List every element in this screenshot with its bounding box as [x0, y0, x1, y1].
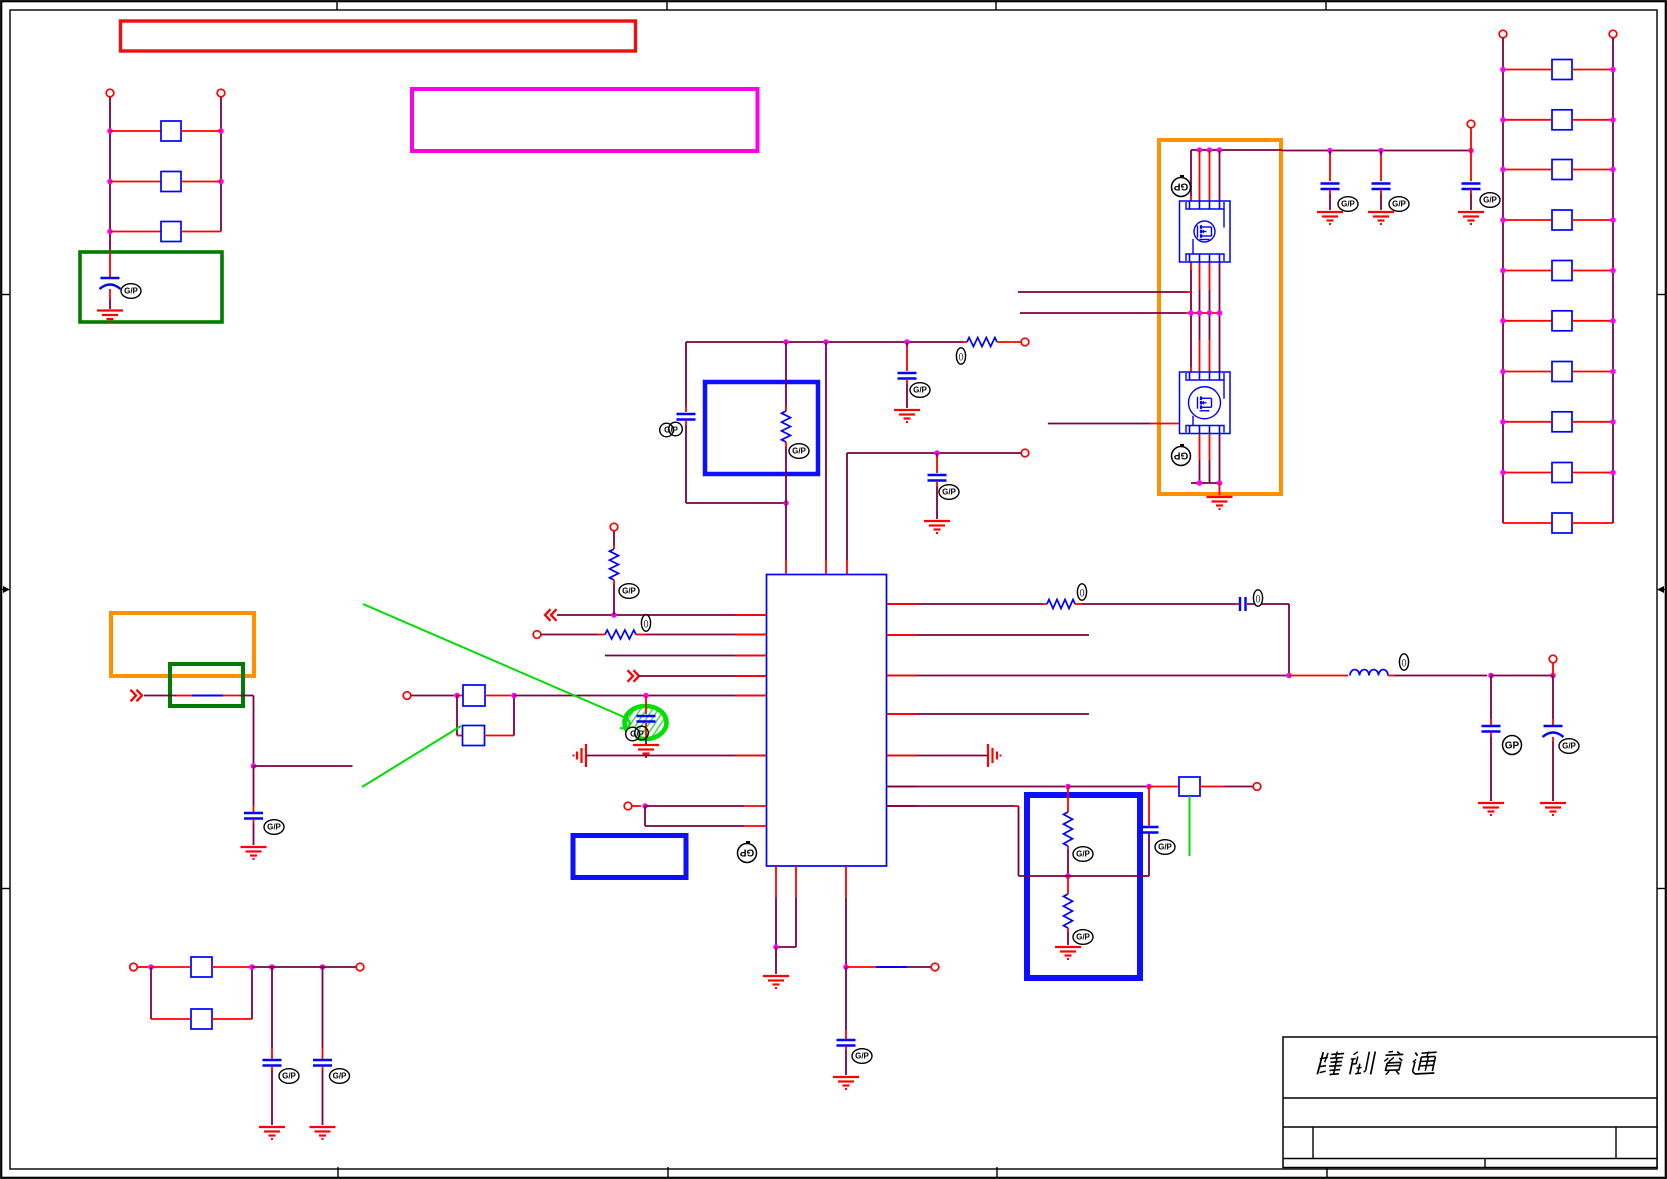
wire power bus top: [1191, 149, 1282, 151]
resistor R11 (loop): [457, 696, 514, 746]
wire L3: [605, 655, 766, 657]
wire net A stub right: [254, 765, 353, 767]
svg-text:GP: GP: [1173, 181, 1188, 192]
capacitor C3: [263, 967, 300, 1125]
svg-text:G/P: G/P: [664, 426, 678, 435]
wire to P13: [846, 966, 931, 968]
node ladder L8: [1500, 419, 1506, 425]
resistor RL7: [1503, 362, 1613, 382]
node ladder L7: [1500, 369, 1506, 375]
node ladder R9: [1610, 470, 1616, 476]
node net A: [251, 763, 257, 769]
wire top bus: [686, 341, 963, 343]
capacitor C7: [928, 453, 960, 519]
svg-text:G/P: G/P: [1392, 200, 1406, 209]
resistor RL10: [1503, 513, 1613, 533]
node ladder R2: [1610, 117, 1616, 123]
wire L5: [514, 695, 766, 697]
wire bus left drop: [685, 342, 687, 412]
svg-text:G/P: G/P: [1483, 196, 1497, 205]
ground (C10): [1478, 803, 1504, 815]
node ladder L4: [1500, 217, 1506, 223]
node right rail row1: [218, 128, 224, 134]
resistor R1: [110, 121, 221, 141]
resistor R2: [110, 172, 221, 192]
node mid 1209: [1207, 310, 1213, 316]
output chevron net C: [628, 670, 640, 682]
highlight box magenta: [412, 89, 758, 151]
wire R3: [887, 675, 1289, 677]
svg-text:G/P: G/P: [1076, 850, 1090, 859]
wire L8: [645, 806, 766, 826]
ground (C13): [833, 1077, 859, 1089]
IC U1: [767, 575, 887, 867]
resistor RL3: [1503, 160, 1613, 180]
resistor R4: [151, 957, 252, 977]
resistor RL5: [1503, 261, 1613, 281]
terminal P16: [1467, 120, 1475, 150]
svg-text:GP: GP: [1173, 450, 1188, 461]
capacitor C5: [660, 414, 696, 437]
leader line green 1: [363, 604, 630, 728]
resistor RL6: [1503, 311, 1613, 331]
wire R7net: [887, 806, 1149, 876]
ground (R14): [1055, 947, 1081, 959]
ground (C3): [259, 1127, 285, 1139]
wire L1: [557, 614, 766, 616]
capacitor C14: [1321, 151, 1359, 212]
ground (rotated, L6): [574, 744, 587, 767]
svg-text:G/P: G/P: [1076, 933, 1090, 942]
node ladder R7: [1610, 369, 1616, 375]
wire L4: [639, 675, 766, 677]
ground (C15): [1368, 212, 1394, 224]
ground (C14): [1317, 212, 1343, 224]
capacitor C11 (polarized): [1543, 676, 1580, 802]
capacitor C13: [837, 967, 873, 1075]
transistor Q1: [1180, 201, 1231, 262]
terminal P5: [1021, 338, 1029, 346]
node bus at 826: [823, 339, 829, 345]
node 1068/876: [1065, 873, 1071, 879]
wire ladder right rail: [1612, 38, 1614, 523]
terminal P17: [1499, 30, 1507, 38]
resistor R5 (loop): [151, 967, 252, 1029]
svg-text:GP: GP: [739, 847, 754, 858]
wire IC pin T2: [825, 342, 827, 574]
ground (B1): [763, 947, 789, 988]
svg-text:G/P: G/P: [1562, 742, 1576, 751]
resistor R10: [457, 685, 511, 706]
terminal P13: [931, 963, 939, 971]
terminal P18: [1609, 30, 1617, 38]
highlight box blue (divider): [1027, 795, 1140, 978]
resistor R12: [887, 584, 1236, 609]
wire gate2 in: [1048, 423, 1179, 425]
wire ladder left rail: [1502, 38, 1504, 523]
wire R5: [887, 755, 988, 757]
resistor RL9: [1503, 463, 1613, 483]
capacitor C2: [244, 766, 284, 845]
node BL4: [320, 964, 326, 970]
node ladder L3: [1500, 167, 1506, 173]
node ladder R4: [1610, 217, 1616, 223]
svg-text:G/P: G/P: [333, 1072, 347, 1081]
capacitor C10: [1482, 676, 1522, 802]
wire col1: [1190, 150, 1192, 372]
ground (C11): [1540, 803, 1566, 815]
node BL2: [249, 964, 255, 970]
wire R6net: [887, 786, 1065, 788]
node BL1: [148, 964, 154, 970]
node ladder R6: [1610, 318, 1616, 324]
svg-text:(): (): [643, 619, 649, 628]
wire col4: [1219, 150, 1221, 483]
wire col2: [1199, 150, 1201, 483]
wire right rail: [220, 131, 222, 232]
svg-text:G/P: G/P: [942, 488, 956, 497]
svg-text:G/P: G/P: [267, 823, 281, 832]
ground (rotated, R5): [988, 744, 1001, 767]
node bot 1199: [1197, 480, 1203, 486]
terminal P6: [1021, 449, 1029, 457]
node 1068/786: [1065, 784, 1071, 790]
output chevron net A: [131, 690, 143, 702]
wire R1 drop: [1288, 604, 1290, 676]
ground (C7): [924, 521, 950, 533]
node ladder L2: [1500, 117, 1506, 123]
highlight box green (left): [170, 664, 243, 706]
terminal P12: [1253, 783, 1261, 791]
wire vout bus: [1282, 150, 1471, 152]
ground (C8): [633, 745, 659, 757]
wire IC pin T1: [785, 503, 787, 574]
node BL3: [269, 964, 275, 970]
capacitor C1 (polarized): [100, 252, 142, 309]
resistor R7: [782, 342, 810, 503]
node ladder R8: [1610, 419, 1616, 425]
highlight box blue (R7): [705, 382, 818, 474]
svg-text:G/P: G/P: [622, 587, 636, 596]
wire mid net: [1020, 312, 1221, 314]
node ladder R1: [1610, 67, 1616, 73]
terminal P3: [130, 963, 148, 971]
node bot 1219: [1217, 480, 1223, 486]
wire IC pin T3: [846, 453, 848, 574]
node 1553/675: [1550, 673, 1556, 679]
wire bottom join: [1191, 482, 1220, 484]
resistor RL2: [1503, 110, 1613, 130]
wire green stub: [1189, 796, 1191, 856]
jumper J1: [1149, 777, 1253, 796]
node 1471/150: [1468, 148, 1474, 154]
resistor RL1: [1503, 60, 1613, 80]
resistor R14: [1064, 876, 1094, 945]
highlight ellipse green: [600, 692, 718, 752]
node 846/967: [843, 964, 849, 970]
leader line green 2: [362, 726, 461, 787]
node ladder L9: [1500, 470, 1506, 476]
wire bus left bottom: [686, 420, 786, 503]
svg-text:G/P: G/P: [855, 1052, 869, 1061]
capacitor C15: [1372, 151, 1410, 212]
resistor R9: [541, 615, 766, 639]
node bus top 1199: [1197, 147, 1203, 153]
node ladder L5: [1500, 268, 1506, 274]
svg-text:G/P: G/P: [124, 287, 138, 296]
ground (C6): [894, 410, 920, 422]
node 786/503: [783, 500, 789, 506]
wire B1: [775, 866, 777, 947]
title block: [1283, 1037, 1657, 1168]
resistor R3: [110, 222, 221, 242]
terminal P9: [403, 692, 454, 700]
svg-text:(): (): [958, 352, 964, 361]
terminal P8: [533, 631, 541, 639]
node 645/806: [642, 803, 648, 809]
node ladder L1: [1500, 67, 1506, 73]
node 1330/150: [1327, 148, 1333, 154]
wire R2: [887, 634, 1089, 636]
terminal P1: [106, 89, 114, 131]
wire net A colored segments: [144, 695, 254, 697]
resistor RL4: [1503, 210, 1613, 230]
wire B2: [776, 866, 796, 947]
resistor RL8: [1503, 412, 1613, 432]
node 614/615: [611, 612, 617, 618]
svg-text:G/P: G/P: [282, 1072, 296, 1081]
node 1289/675: [1286, 673, 1292, 679]
node ladder R3: [1610, 167, 1616, 173]
highlight box red (top): [121, 21, 636, 51]
capacitor C8: [626, 696, 656, 745]
terminal P4: [356, 963, 364, 971]
highlight box green (top-left): [80, 252, 222, 322]
svg-text:G/P: G/P: [1158, 843, 1172, 852]
svg-text:G/P: G/P: [913, 386, 927, 395]
node 1491/675: [1488, 673, 1494, 679]
wire R4: [887, 713, 1089, 715]
wire to P11: [1491, 663, 1553, 676]
wire mid bus: [847, 452, 1021, 454]
capacitor C4: [313, 967, 350, 1125]
label GP (Q1): [1172, 176, 1191, 197]
wire B3: [845, 866, 847, 967]
node mid 1219: [1217, 310, 1223, 316]
wire R6net b: [1068, 786, 1149, 788]
node mid 1191: [1188, 310, 1194, 316]
svg-text:G/P: G/P: [1341, 200, 1355, 209]
node bus at 907: [904, 339, 910, 345]
ground (C16): [1458, 212, 1484, 224]
ground (C4): [310, 1127, 336, 1139]
svg-text:G/P: G/P: [792, 447, 806, 456]
svg-text:(): (): [1079, 588, 1085, 597]
node bus top 1219: [1217, 147, 1223, 153]
capacitor C12: [1140, 787, 1176, 877]
node 1381/150: [1378, 148, 1384, 154]
terminal P7: [610, 523, 618, 531]
node left rail row3: [107, 229, 113, 235]
ground (C1): [97, 311, 123, 323]
transistor Q2: [1180, 372, 1231, 434]
wire BL bus: [252, 966, 356, 968]
svg-text:G/P: G/P: [630, 730, 644, 739]
node ladder R5: [1610, 268, 1616, 274]
node bus at 786: [783, 339, 789, 345]
node 457/695: [454, 693, 460, 699]
node 937/453: [934, 450, 940, 456]
svg-text:(): (): [1401, 658, 1407, 667]
capacitor C16: [1462, 151, 1501, 211]
terminal P2: [217, 89, 225, 131]
node mid 1199: [1197, 310, 1203, 316]
capacitor C6: [898, 342, 931, 408]
node bus top 1209: [1207, 147, 1213, 153]
node 1149/786: [1146, 784, 1152, 790]
svg-text:GP: GP: [1505, 740, 1520, 751]
wire col3: [1209, 150, 1211, 483]
resistor R13: [1064, 787, 1094, 877]
node left rail row2: [107, 179, 113, 185]
company name text: [1317, 1052, 1437, 1075]
highlight box blue (empty): [573, 836, 686, 878]
capacitor C9 (series): [1236, 590, 1289, 611]
highlight box orange (power): [1159, 140, 1281, 494]
wire net A vertical: [253, 696, 255, 767]
ground (power): [1207, 483, 1233, 509]
resistor R6: [956, 338, 1021, 365]
node 776/947: [773, 944, 779, 950]
label GP (Q2): [1172, 445, 1191, 466]
node left rail row1: [107, 128, 113, 134]
inductor L1: [1289, 654, 1487, 676]
node right rail row2: [218, 179, 224, 185]
resistor R8 (pullup): [610, 531, 640, 615]
ground (C2): [241, 847, 267, 859]
terminal P10: [624, 802, 641, 810]
wire L6: [586, 755, 766, 757]
node 646/695: [643, 693, 649, 699]
node ladder L6: [1500, 318, 1506, 324]
input chevron net B: [545, 609, 557, 621]
wire left rail: [109, 131, 111, 252]
wire L7: [645, 805, 766, 807]
svg-text:(): (): [1255, 594, 1261, 603]
node 514/695: [511, 693, 517, 699]
IC pin stubs: [735, 604, 917, 806]
wire gate1 in: [1018, 291, 1191, 293]
label GP (U1): [738, 842, 757, 863]
terminal P11: [1549, 655, 1557, 663]
highlight box orange (left): [111, 613, 254, 676]
